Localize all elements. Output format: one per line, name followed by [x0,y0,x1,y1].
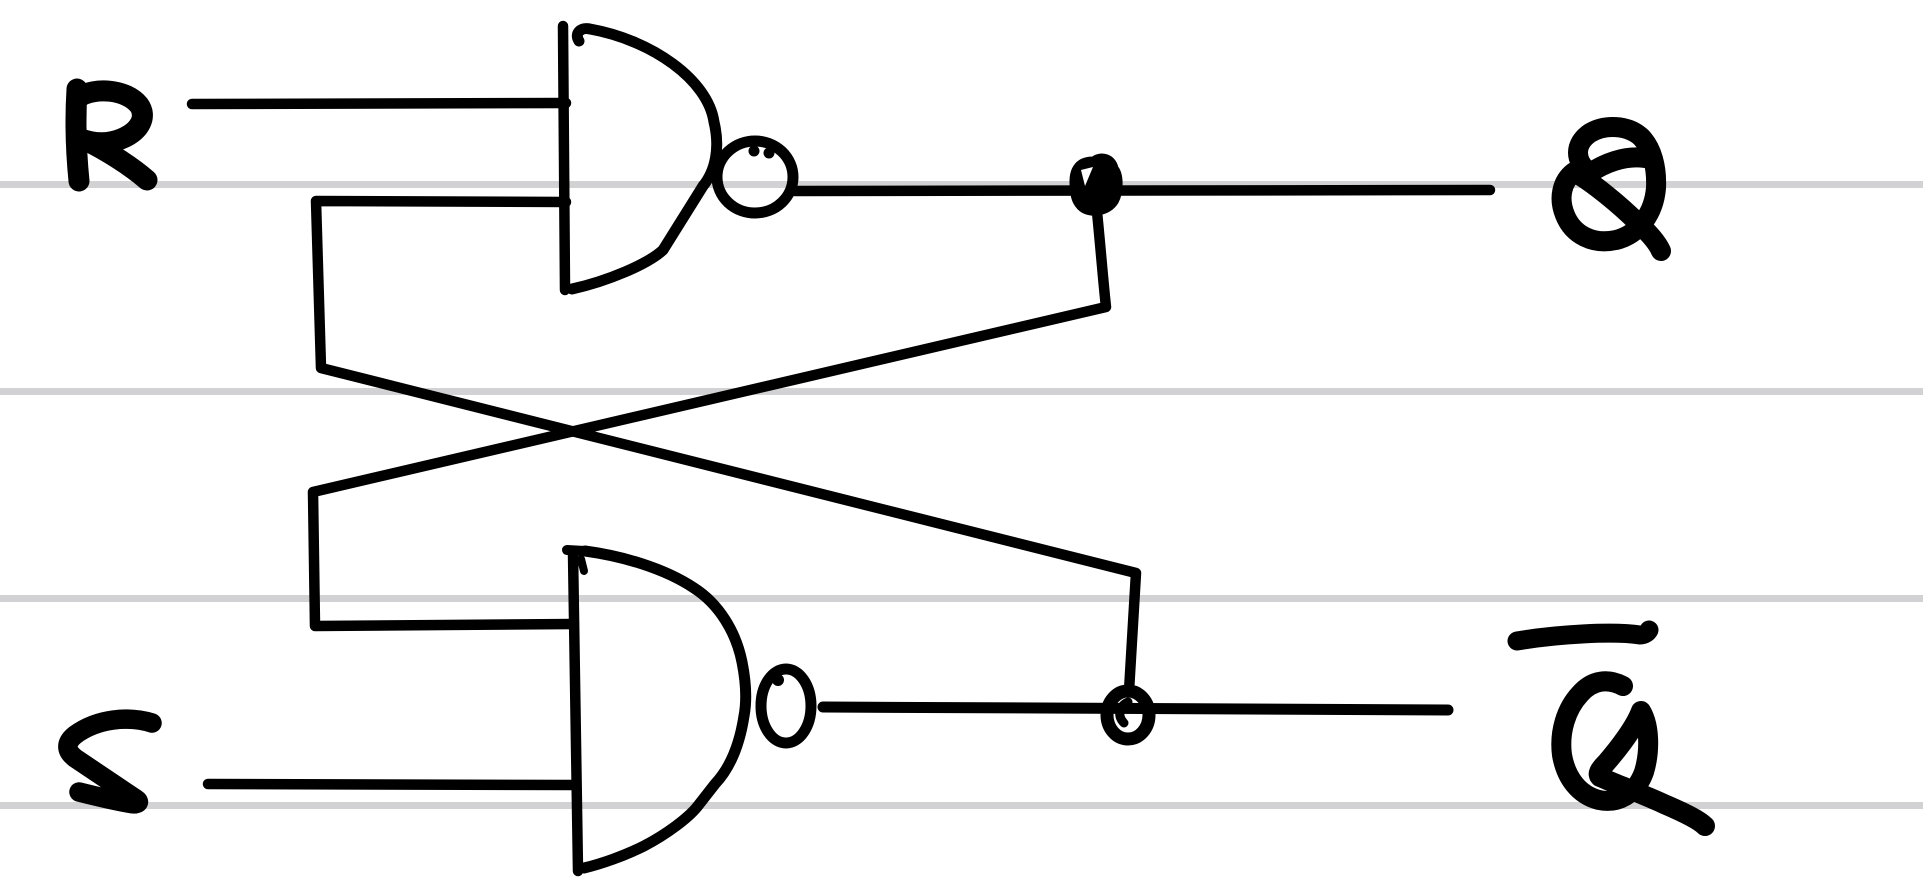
nand-gate U2 input bar [573,553,578,871]
label S (input S) [68,719,152,804]
wire S input [208,784,574,785]
wire feedback from Qbar to gate U1 input [316,201,1136,691]
nand-gate U2 inversion bubble [761,669,811,743]
wire Qbar output [823,707,1448,710]
ruled paper background lines [0,185,1923,806]
nand-gate U1 input bar [563,26,565,290]
nand-gate U1 inversion bubble [717,141,793,213]
node junction on Qbar wire [1107,691,1149,739]
node junction on Q wire [1072,156,1120,213]
nand-gate U2 pen tick [581,559,584,571]
label Qbar overline [1517,630,1649,641]
wire Q output [795,190,1490,191]
nand-gate U1 body curve [572,29,717,289]
wire R input [192,103,566,104]
bubble pen-start marks [749,146,760,157]
nand-gate U2 top cap nub [567,550,585,551]
label R (input R) [76,89,147,181]
label Qbar letter Q [1561,681,1705,826]
wire feedback from Q to gate U2 input [313,202,1106,626]
label Q (output Q) [1562,127,1661,251]
bubble2 pen-start mark [772,674,784,686]
nand-gate U2 body curve [584,551,746,868]
